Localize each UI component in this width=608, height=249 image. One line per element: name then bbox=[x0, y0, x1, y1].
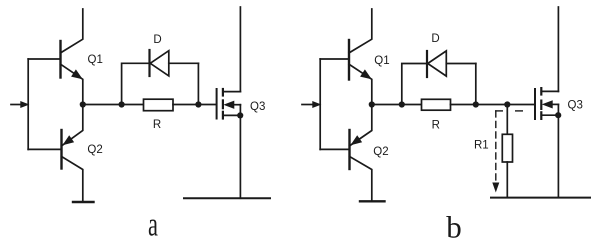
svg-text:Q3: Q3 bbox=[568, 99, 583, 111]
transistor Q1 (a): base bar bbox=[59, 41, 61, 78]
resistor R (b): body bbox=[422, 99, 451, 110]
node: R / diode / gate junction (a) bbox=[195, 101, 201, 107]
svg-text:Q1: Q1 bbox=[88, 54, 103, 66]
node: output junction of Q1/Q2 emitters (b) bbox=[369, 101, 375, 107]
MOSFET Q3 (a): source stub bbox=[223, 114, 241, 116]
svg-text:R: R bbox=[153, 119, 161, 131]
transistor Q1 (a): collector bbox=[61, 9, 83, 53]
svg-text:Q1: Q1 bbox=[374, 55, 389, 67]
svg-text:a: a bbox=[148, 206, 158, 244]
MOSFET Q3 (a): gate bar bbox=[216, 89, 218, 119]
ground rail (a) bbox=[184, 197, 270, 199]
wire: Q3 drain lead (b) bbox=[557, 7, 559, 91]
node: R1 tap junction (b) bbox=[504, 101, 510, 107]
annotation: dashed vertical with arrow beside R1 (b) bbox=[495, 111, 497, 184]
wire: diode branch left riser (a) bbox=[122, 63, 150, 104]
svg-text:Q2: Q2 bbox=[87, 144, 102, 156]
transistor Q2 (b): emitter with arrow bbox=[350, 105, 372, 146]
wire: diode anode to right riser (b) bbox=[446, 63, 476, 65]
resistor R (a): body bbox=[144, 99, 174, 111]
wire: Q2 base lead (circuit a) bbox=[28, 148, 61, 150]
svg-text:Q2: Q2 bbox=[373, 146, 388, 158]
node: Q3 source junction (b) bbox=[555, 112, 561, 118]
ground rail (b) bbox=[491, 197, 590, 199]
transistor Q2 (a): base bar bbox=[60, 130, 62, 169]
svg-text:R: R bbox=[432, 120, 440, 132]
input arrowhead (circuit a) bbox=[21, 102, 28, 108]
diode D (b): anode triangle bbox=[428, 51, 447, 76]
transistor Q2 (a): emitter with arrow bbox=[62, 105, 83, 146]
MOSFET Q3 (a): drain stub bbox=[223, 91, 241, 93]
MOSFET Q3 (b): source stub bbox=[541, 114, 558, 116]
transistor Q1 (b): base bar bbox=[348, 40, 350, 80]
transistor Q1 (b): collector bbox=[349, 9, 372, 53]
wire: resistor R to gate of Q3 (a) bbox=[173, 104, 217, 106]
svg-text:Q3: Q3 bbox=[250, 101, 265, 113]
wire: base bus vertical (circuit b) bbox=[319, 59, 321, 149]
svg-text:b: b bbox=[446, 210, 462, 245]
wire: Q3 source to ground rail (a) bbox=[239, 115, 241, 198]
diode D (b): cathode bar bbox=[426, 51, 428, 77]
svg-text:R1: R1 bbox=[474, 139, 489, 151]
ground (a): bar under Q2 bbox=[73, 201, 94, 203]
wire: diode anode to right riser (a) bbox=[169, 62, 199, 64]
MOSFET Q3 (b): body-source link bbox=[557, 104, 559, 115]
wire: output node to resistor R (a) bbox=[83, 104, 144, 106]
svg-text:D: D bbox=[431, 33, 439, 45]
wire: diode branch right riser (a) bbox=[197, 63, 199, 104]
wire: R1 bottom lead to ground rail (b) bbox=[506, 162, 508, 198]
node: Q3 source junction (a) bbox=[237, 112, 243, 118]
node: diode branch left junction (b) bbox=[399, 101, 405, 107]
transistor Q2 (b): base bar bbox=[348, 130, 350, 169]
wire: input signal lead (circuit b) bbox=[302, 104, 314, 106]
wire: input signal lead (circuit a) bbox=[11, 104, 23, 106]
wire: base bus vertical (circuit a) bbox=[27, 59, 29, 149]
wire: diode branch right riser (b) bbox=[475, 64, 477, 105]
diode D (a): anode triangle bbox=[150, 51, 169, 76]
transistor Q1 (b): emitter with arrow bbox=[349, 64, 372, 104]
input arrowhead (circuit b) bbox=[313, 102, 320, 108]
wire: R1 top lead (b) bbox=[506, 105, 508, 135]
wire: diode branch left riser (b) bbox=[402, 64, 427, 105]
node: output junction of Q1/Q2 emitters (a) bbox=[80, 101, 86, 107]
diode D (a): cathode bar bbox=[148, 50, 150, 76]
wire: resistor R to gate of Q3 (b) bbox=[451, 104, 536, 106]
wire: Q3 source to ground rail (b) bbox=[557, 115, 559, 197]
svg-text:D: D bbox=[153, 34, 161, 46]
MOSFET Q3 (a): body-source link bbox=[239, 105, 241, 116]
wire: Q3 drain lead (a) bbox=[239, 7, 241, 92]
node: diode right / R junction (b) bbox=[473, 101, 479, 107]
transistor Q1 (a): emitter with arrow bbox=[61, 64, 83, 104]
ground (b): bar under Q2 bbox=[360, 200, 385, 202]
MOSFET Q3 (a): body arrow bbox=[230, 104, 240, 106]
MOSFET Q3 (b): channel segments bbox=[540, 88, 542, 94]
resistor R1 (b): body bbox=[502, 134, 512, 162]
annotation: dashed horizontal at R1 top (b) bbox=[496, 110, 503, 112]
MOSFET Q3 (b): drain stub bbox=[541, 90, 558, 92]
MOSFET Q3 (a): channel segments bbox=[222, 89, 224, 96]
wire: Q2 base lead (circuit b) bbox=[320, 148, 349, 150]
wire: Q1 base lead (circuit b) bbox=[320, 58, 349, 60]
node: diode branch left junction (a) bbox=[119, 101, 125, 107]
MOSFET Q3 (b): gate bar bbox=[534, 89, 536, 119]
MOSFET Q3 (b): body arrow bbox=[549, 103, 559, 105]
transistor Q2 (a): collector bbox=[62, 157, 83, 202]
transistor Q2 (b): collector bbox=[350, 157, 372, 202]
wire: Q1 base lead (circuit a) bbox=[28, 58, 60, 60]
wire: output node to resistor R (b) bbox=[372, 104, 422, 106]
